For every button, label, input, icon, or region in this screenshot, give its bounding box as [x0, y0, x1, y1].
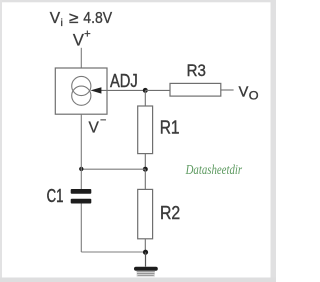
current source symbol upper circle — [72, 76, 91, 95]
current source symbol lower circle — [72, 86, 91, 105]
svg-text:V: V — [89, 120, 100, 137]
wire bottom rail horizontal — [81, 251, 145, 253]
svg-text:V: V — [50, 10, 61, 27]
wire C1 junction to capacitor — [80, 169, 82, 189]
svg-text:i: i — [61, 17, 63, 29]
svg-text:+: + — [84, 29, 91, 41]
svg-text:−: − — [100, 114, 106, 126]
svg-text:R3: R3 — [187, 62, 206, 80]
svg-text:O: O — [249, 91, 259, 103]
wire R1 to mid junction — [144, 154, 146, 170]
svg-text:4.8V: 4.8V — [83, 10, 112, 27]
ground symbol hatching — [137, 271, 155, 277]
resistor R1 — [138, 106, 153, 154]
frame top strip — [0, 0, 276, 2]
wire R3 to Vo — [221, 89, 234, 91]
svg-text:ADJ: ADJ — [110, 71, 138, 91]
wire mid junction down to R2 — [144, 169, 146, 189]
wire mid junction to C1 column — [81, 168, 145, 170]
svg-text:R1: R1 — [160, 118, 180, 138]
capacitor C1 bottom plate — [71, 199, 92, 204]
wire ADJ junction to R3 — [145, 89, 170, 91]
frame right strip — [271, 0, 277, 279]
resistor R2 — [138, 189, 153, 238]
resistor R3 — [170, 83, 221, 96]
wire C1 to bottom rail — [80, 204, 82, 253]
regulator U1 box — [55, 68, 107, 114]
wire ADJ to current source — [100, 89, 145, 91]
frame bottom strip — [0, 278, 276, 282]
capacitor C1 top plate — [71, 189, 92, 194]
svg-text:Datasheetdir: Datasheetdir — [185, 163, 243, 178]
frame left strip — [0, 0, 2, 279]
svg-text:≥: ≥ — [69, 10, 79, 27]
svg-text:V: V — [239, 84, 249, 100]
svg-text:C1: C1 — [47, 186, 64, 206]
node ground junction — [143, 250, 148, 255]
ground symbol bar — [134, 267, 158, 271]
svg-text:V: V — [73, 31, 84, 49]
wire junction to ground — [145, 252, 147, 266]
node C1 top junction — [79, 167, 83, 171]
wire V+ to regulator box — [80, 48, 82, 68]
wire regulator box down to C1 junction — [80, 114, 82, 169]
wire R2 to ground junction — [144, 239, 146, 252]
label Vi >= 4.8V — [50, 10, 113, 29]
arrowhead into current source — [90, 87, 101, 93]
node mid junction (R1/R2) — [143, 167, 148, 172]
node ADJ junction — [143, 88, 148, 93]
svg-text:R2: R2 — [160, 203, 180, 223]
wire ADJ junction down to R1 — [144, 90, 146, 106]
